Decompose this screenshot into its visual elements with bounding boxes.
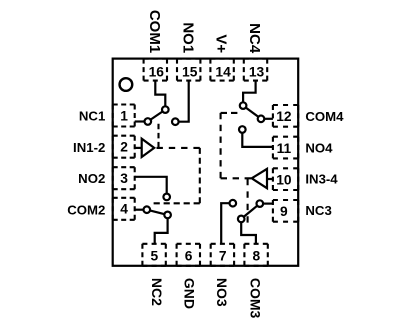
- svg-text:NC2: NC2: [149, 278, 165, 306]
- control line IN3-4 to S4 blade: segment right: [221, 112, 238, 114]
- wire pin11 NO4 to S4 NO contact: [242, 130, 273, 147]
- svg-text:NC3: NC3: [305, 203, 331, 218]
- svg-text:COM1: COM1: [146, 10, 163, 53]
- wire pin13 NC4 to S4 pole: [243, 81, 256, 106]
- svg-text:NO2: NO2: [78, 171, 105, 186]
- svg-text:NC1: NC1: [79, 109, 105, 124]
- S3 pole contact: [238, 216, 245, 223]
- svg-text:NO4: NO4: [305, 141, 333, 156]
- buffer U1 IN1-2 triangle: [142, 139, 155, 157]
- pin 6 box: [177, 243, 200, 245]
- S4 NO contact: [239, 126, 246, 133]
- svg-text:GND: GND: [182, 278, 198, 309]
- control line IN1-2 to S1 blade: [157, 124, 159, 148]
- control line IN1-2 to S2 blade: segment right: [157, 147, 200, 149]
- svg-text:14: 14: [215, 64, 231, 79]
- svg-text:V+: V+: [213, 34, 230, 53]
- pin 16 box: [144, 58, 167, 60]
- svg-text:4: 4: [120, 202, 128, 217]
- wire pin7 NO3 to S3 NO contact: [221, 203, 233, 244]
- pin 8 box: [244, 243, 267, 245]
- svg-text:5: 5: [151, 249, 159, 264]
- wire pin3 NO2 to S2 NO contact: [135, 177, 167, 197]
- svg-text:9: 9: [280, 204, 288, 219]
- svg-text:11: 11: [277, 141, 292, 156]
- S2 NO contact: [163, 194, 170, 201]
- pin 2 box: [113, 135, 135, 137]
- svg-text:13: 13: [249, 64, 265, 79]
- pin 12 box: [273, 104, 298, 106]
- svg-text:15: 15: [182, 64, 198, 79]
- pin 1 box: [113, 103, 135, 105]
- wire pin8 COM3 to S3 pole: [241, 219, 256, 244]
- svg-text:12: 12: [276, 109, 292, 124]
- pin 10 box: [273, 167, 298, 169]
- wire pin15 NO1 to S1 NO contact: [175, 81, 188, 122]
- svg-text:7: 7: [219, 249, 227, 264]
- svg-text:10: 10: [276, 173, 292, 188]
- pin 3 box: [113, 166, 135, 168]
- wire pin12 COM4 to S4 NC contact: [261, 118, 273, 120]
- pin 11 box: [273, 136, 298, 138]
- pin 9 box: [273, 199, 298, 201]
- S1 pole contact: [162, 106, 169, 113]
- svg-text:IN1-2: IN1-2: [73, 140, 105, 155]
- svg-text:16: 16: [149, 64, 165, 79]
- S1 NO contact: [172, 118, 179, 125]
- svg-text:NO3: NO3: [214, 278, 230, 307]
- switch S1 blade: [148, 110, 166, 122]
- buffer U1 IN1-2 input lead: [135, 147, 142, 149]
- wire pin16 COM1 to switch S1 pole: [155, 81, 165, 110]
- switch S4 blade: [243, 106, 261, 119]
- svg-text:8: 8: [253, 249, 261, 264]
- pin 1 indicator: [120, 78, 133, 91]
- control line IN3-4 to S3 blade: [247, 179, 249, 223]
- buffer U2 IN3-4 triangle: [252, 169, 267, 188]
- wire pin9 NC3 to S3 NC contact: [260, 203, 273, 205]
- svg-text:1: 1: [120, 108, 128, 123]
- S3 NO contact: [230, 200, 237, 207]
- control line IN1-2 to S2 blade: segment down: [199, 148, 201, 203]
- svg-text:6: 6: [185, 249, 193, 264]
- package outline: [113, 59, 299, 266]
- S2 pole contact: [144, 206, 151, 213]
- pin 14 box: [210, 58, 233, 60]
- svg-text:COM2: COM2: [67, 203, 105, 218]
- svg-text:COM3: COM3: [248, 278, 264, 319]
- control line IN1-2 to S2 blade: segment left: [154, 202, 200, 204]
- svg-text:NC4: NC4: [246, 23, 263, 54]
- svg-text:COM4: COM4: [305, 109, 344, 124]
- buffer U2 IN3-4 input lead: [267, 178, 273, 180]
- S3 NC contact: [257, 200, 264, 207]
- control line IN3-4 to S4 blade: segment left: [221, 177, 251, 179]
- pin 4 box: [113, 197, 135, 199]
- pin 7 box: [211, 243, 234, 245]
- control line IN3-4 to S4 blade: segment up: [220, 113, 222, 178]
- svg-text:2: 2: [120, 140, 128, 155]
- wire pin1 NC1 to S1 NC contact: [135, 120, 148, 122]
- pin 5 box: [142, 243, 165, 245]
- S4 pole contact: [240, 102, 247, 109]
- svg-text:NO1: NO1: [179, 22, 196, 53]
- wire pin4 COM2 to S2 pole: [135, 209, 147, 211]
- switch S3 blade: [241, 204, 260, 219]
- pin 13 box: [244, 58, 267, 60]
- wire pin5 NC2 to S2 NC contact: [155, 215, 168, 244]
- svg-text:3: 3: [120, 171, 128, 186]
- pin 15 box: [177, 58, 200, 60]
- switch S2 blade: [147, 210, 168, 215]
- S2 NC contact: [164, 212, 171, 219]
- svg-text:IN3-4: IN3-4: [305, 172, 338, 187]
- S4 NC contact: [258, 116, 265, 123]
- S1 NC contact: [145, 118, 152, 125]
